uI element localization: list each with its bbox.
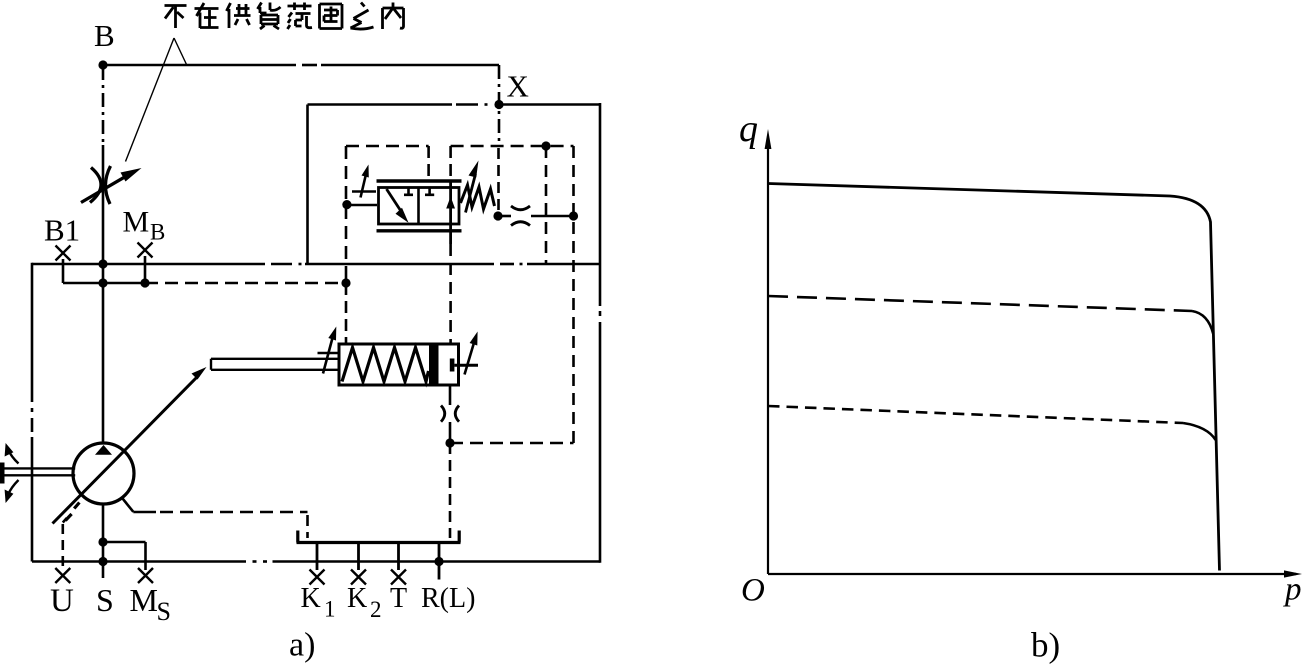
pilot valve bottom rail bbox=[377, 229, 462, 232]
stroking cylinder left stub bbox=[318, 352, 340, 355]
stroking cylinder rod plate bbox=[450, 359, 455, 372]
wire orifice line y=216 bbox=[498, 215, 511, 218]
char 在 bbox=[195, 3, 219, 28]
pilot valve body bbox=[379, 188, 460, 225]
housing bottom edge bbox=[32, 560, 246, 563]
stroking cylinder piston bbox=[429, 346, 439, 384]
wire LS line y=283 solid part bbox=[63, 282, 145, 285]
Chinese note: hand-drawn glyphs bbox=[165, 3, 404, 30]
pilot valve blocked stub right bbox=[425, 188, 434, 195]
char 货 bbox=[258, 3, 281, 30]
pilot valve blocked stub left bbox=[404, 188, 413, 195]
x axis bbox=[768, 573, 1296, 575]
port K1 bbox=[316, 543, 319, 570]
control rod lines bbox=[211, 359, 339, 370]
tank manifold bbox=[297, 541, 461, 544]
orifice below cylinder bbox=[449, 386, 452, 406]
svg-text:X: X bbox=[507, 69, 529, 104]
orifice (fixed) on y=216 bbox=[511, 206, 530, 226]
stroking cylinder left adjust arrow bbox=[323, 336, 333, 374]
svg-text:T: T bbox=[390, 583, 407, 614]
pump circle bbox=[73, 443, 134, 504]
char 围 bbox=[320, 4, 343, 29]
wire drain down to manifold bbox=[449, 443, 452, 538]
svg-text:B1: B1 bbox=[44, 213, 80, 248]
pilot valve left cell flow arrow bbox=[387, 189, 403, 214]
wire boundary y=264 bbox=[32, 263, 265, 266]
svg-text:O: O bbox=[741, 573, 765, 609]
svg-text:K: K bbox=[301, 583, 321, 614]
port U x-mark bbox=[55, 568, 70, 583]
node pilot left port bbox=[342, 200, 351, 209]
wire B horizontal (chain) bbox=[103, 64, 296, 67]
node X on housing bbox=[494, 100, 503, 109]
curve low dashed bbox=[768, 406, 1183, 423]
pump shaft bbox=[0, 463, 5, 484]
node x=573.5 on orifice line bbox=[569, 211, 578, 220]
wire U elbow bbox=[63, 518, 67, 523]
housing box (solid) top edge bbox=[308, 103, 453, 106]
wire MB down bbox=[144, 256, 147, 283]
pump case drain bbox=[122, 498, 133, 512]
port K2 bbox=[357, 543, 360, 570]
wire dashed x=450.6 below valve to cylinder bbox=[449, 244, 452, 344]
port B1 x-mark bbox=[56, 246, 71, 261]
wire pilot to cylinder top bbox=[345, 283, 348, 344]
node on dashed rail bbox=[541, 141, 550, 150]
note leader lines bbox=[126, 38, 187, 162]
stroking cylinder spring bbox=[342, 348, 429, 382]
port R(L) bbox=[438, 543, 441, 580]
housing upper-left edge bbox=[306, 105, 309, 265]
y axis bbox=[767, 140, 769, 574]
node LS to pilot bbox=[341, 278, 350, 287]
wire dashed x=573.5 bbox=[572, 146, 575, 443]
pilot valve left adjust arrow bbox=[361, 172, 367, 198]
housing right edge bbox=[599, 103, 602, 306]
port T bbox=[397, 543, 400, 570]
svg-text:M: M bbox=[130, 582, 158, 618]
svg-text:K: K bbox=[347, 583, 367, 614]
svg-text:q: q bbox=[739, 108, 758, 150]
dashed box top rail y=146 bbox=[346, 145, 429, 148]
pump rotation arrows bbox=[8, 450, 18, 464]
wire S down from pump bbox=[102, 504, 105, 579]
wire dashed x=498 spring chamber bbox=[497, 148, 500, 212]
stroking cylinder right adjust arrow bbox=[465, 341, 475, 375]
svg-text:R(L): R(L) bbox=[421, 583, 475, 614]
pilot valve U1 top rail bbox=[377, 179, 462, 182]
svg-text:1: 1 bbox=[324, 597, 336, 622]
node on LS line bbox=[98, 278, 107, 287]
char 之 bbox=[351, 3, 374, 30]
wire B vertical solid to pump bbox=[102, 145, 105, 444]
curve mid dashed bbox=[768, 296, 1192, 311]
svg-text:U: U bbox=[50, 583, 74, 619]
node B on boundary bbox=[98, 259, 107, 268]
stroking cylinder body bbox=[339, 344, 459, 385]
node drain junction bbox=[445, 438, 454, 447]
pilot valve divider bbox=[417, 188, 420, 225]
svg-text:M: M bbox=[123, 206, 150, 239]
node S branch bbox=[98, 537, 107, 546]
node spring chamber bbox=[493, 211, 502, 220]
wire MS branch bbox=[103, 542, 146, 570]
port MB x-mark bbox=[138, 243, 153, 258]
svg-text:2: 2 bbox=[370, 597, 382, 622]
pump triangle bbox=[95, 445, 112, 455]
char 范 bbox=[288, 3, 313, 30]
pilot valve spring bbox=[461, 185, 495, 209]
wire U dashed bbox=[61, 524, 64, 568]
throttle valve (adjustable) on line B bbox=[81, 166, 129, 204]
wire dashed x=428.6 bbox=[427, 146, 430, 181]
mechanical feedback link dashes bbox=[65, 503, 79, 521]
wire dashed x=546 bbox=[545, 146, 548, 264]
node B bbox=[98, 60, 107, 69]
curve solid q-p bbox=[768, 184, 1220, 571]
svg-text:B: B bbox=[150, 220, 165, 245]
wire X corner down (chain) bbox=[498, 65, 501, 146]
svg-text:a): a) bbox=[289, 627, 315, 664]
pump displacement arrow bbox=[53, 375, 200, 524]
svg-text:S: S bbox=[157, 597, 171, 626]
svg-text:p: p bbox=[1283, 572, 1302, 608]
wire LS line y=283 dashed part bbox=[145, 282, 346, 285]
svg-text:B: B bbox=[94, 18, 115, 53]
wire B1 down bbox=[62, 259, 65, 283]
port MS x-mark bbox=[138, 568, 153, 583]
wire drain right y=443 bbox=[450, 442, 574, 445]
char 内 bbox=[383, 3, 404, 30]
pilot valve left port stubs bbox=[352, 190, 376, 193]
wire pilot left vertical x=346 bbox=[345, 146, 348, 283]
housing left edge bbox=[31, 263, 34, 402]
svg-text:b): b) bbox=[1031, 626, 1060, 665]
char 不 bbox=[165, 6, 187, 29]
char 供 bbox=[227, 3, 251, 28]
wire dashed x=450.6 above valve bbox=[449, 146, 452, 181]
stroking cylinder rod stub right bbox=[454, 364, 478, 367]
svg-text:S: S bbox=[96, 582, 114, 618]
wire B vertical chain above throttle bbox=[102, 66, 105, 145]
pilot valve spring adjust arrow bbox=[466, 174, 476, 213]
pilot valve right cell flow arrow up bbox=[449, 181, 452, 244]
